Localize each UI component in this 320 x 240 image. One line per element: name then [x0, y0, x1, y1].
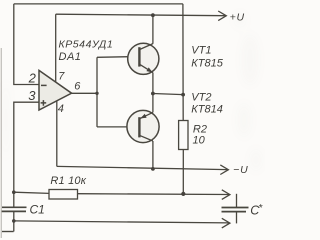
resistor R2 — [179, 121, 188, 150]
wire VT2 collector down — [152, 141, 154, 169]
svg-text:3: 3 — [28, 88, 36, 103]
wire C* bottom lead — [236, 212, 238, 224]
wire pin 4 — [56, 101, 58, 167]
svg-text:C1: C1 — [30, 202, 45, 216]
capacitor C1 plates — [2, 206, 27, 208]
wire op-amp output pin 6 — [72, 92, 97, 94]
wire C1 bottom vertical — [13, 211, 15, 231]
transistor VT1 base bar — [138, 47, 140, 66]
svg-text:−U: −U — [233, 164, 248, 176]
node output/base link — [95, 92, 98, 95]
transistor VT2 base bar — [138, 117, 140, 137]
ground stub bottom-left — [2, 231, 14, 233]
wire output line right of R1 — [78, 193, 230, 196]
node junction dots — [12, 13, 185, 222]
wire left page-edge faint line — [0, 48, 2, 238]
transistor VT1 emitter diagonal with arrow — [139, 64, 153, 72]
wire emitter junction line — [153, 94, 183, 95]
wire VT1 base — [97, 56, 139, 59]
svg-text:КТ815: КТ815 — [191, 57, 223, 69]
wire feedback vertical right — [182, 4, 184, 121]
minus mark pin 2 — [41, 84, 47, 86]
resistor R1 — [49, 190, 78, 200]
wire VT1 collector — [152, 15, 154, 44]
+U rail — [56, 14, 225, 16]
wire VT1 emitter down — [152, 73, 154, 94]
transistor VT2 collector diagonal — [139, 135, 153, 141]
wire R2 bottom to output line — [182, 150, 184, 194]
wire pin 7 — [55, 14, 57, 82]
svg-text:7: 7 — [58, 71, 65, 83]
svg-text:R1 10к: R1 10к — [50, 175, 86, 187]
wire VT2 base — [97, 126, 139, 128]
capacitor C2 C* top lead — [236, 194, 238, 207]
wire VT2 emitter up — [152, 94, 154, 113]
arrowhead output line — [222, 190, 230, 200]
svg-text:VT1: VT1 — [191, 45, 211, 57]
svg-text:КТ814: КТ814 — [191, 104, 223, 116]
svg-text:2: 2 — [28, 70, 37, 85]
-U rail — [57, 166, 228, 169]
node pin3/R1 — [12, 190, 16, 194]
wire left vertical to pin 2 — [14, 4, 39, 85]
svg-text:DA1: DA1 — [59, 51, 82, 63]
svg-text:КР544УД1: КР544УД1 — [59, 38, 114, 50]
svg-text:6: 6 — [74, 80, 81, 92]
svg-text:4: 4 — [58, 103, 64, 115]
transistor Q2 VT2 body — [127, 110, 159, 142]
transistor Q1 VT1 body — [128, 43, 159, 74]
arrowhead +U — [218, 11, 226, 21]
arrowhead -U — [220, 165, 228, 175]
svg-text:+U: +U — [230, 12, 245, 24]
transistor VT1 collector diagonal — [139, 44, 153, 50]
svg-text:VT2: VT2 — [191, 92, 211, 104]
wire base link vertical — [96, 57, 98, 127]
wire pin 3 input vertical — [14, 102, 39, 207]
wire output line left of R1 — [14, 192, 49, 193]
svg-text:10: 10 — [193, 135, 206, 147]
plus mark pin 3 — [41, 100, 47, 106]
op-amp U1 DA1 triangle — [39, 70, 72, 110]
node VT1 collector +U — [151, 13, 155, 17]
node R2/output line — [181, 192, 185, 196]
wire bottom return line — [14, 221, 229, 223]
wire top feedback rail — [14, 3, 183, 5]
transistor VT2 emitter diagonal with arrow to bar — [139, 112, 153, 118]
node emitters — [151, 92, 155, 96]
node C1/bottom line — [12, 219, 16, 223]
arrowhead bottom line — [222, 218, 230, 228]
node feedback/emitter line — [181, 93, 185, 97]
node VT2 collector -U — [151, 167, 155, 171]
capacitor C* plates — [222, 207, 249, 209]
